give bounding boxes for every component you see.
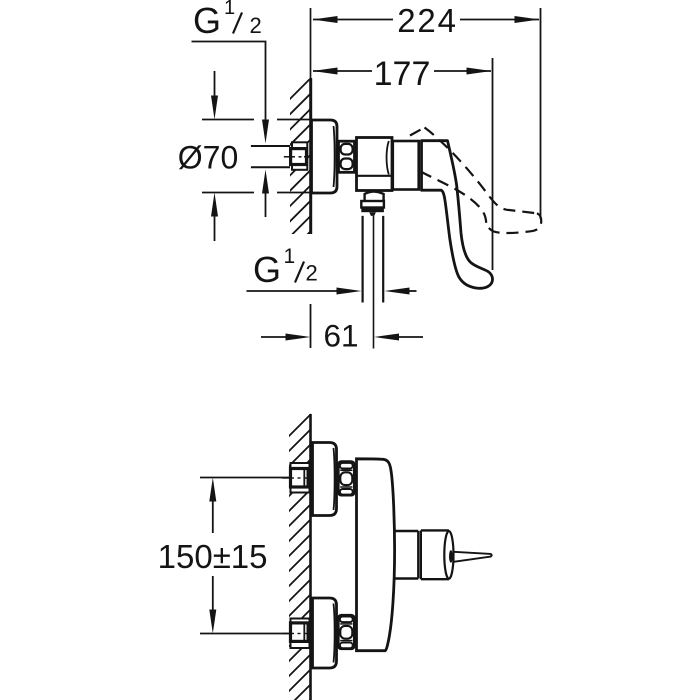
- outlet ring: [361, 201, 384, 208]
- svg-text:177: 177: [374, 55, 431, 93]
- outlet pipe: [363, 216, 384, 303]
- svg-text:2: 2: [306, 261, 318, 286]
- upper union nut (bottom view): [338, 462, 354, 496]
- upper escutcheon flange (bottom view): [313, 443, 337, 516]
- aerator band: [361, 208, 384, 213]
- svg-text:Ø70: Ø70: [178, 140, 238, 176]
- svg-text:224: 224: [397, 2, 457, 39]
- supply washer: [292, 142, 307, 170]
- label G 1/2 (outlet): [253, 245, 318, 290]
- mixer body (bottom view): [357, 459, 395, 651]
- wall hatching (bottom view): [283, 407, 318, 700]
- union nut (top view): [339, 141, 355, 172]
- cartridge cylinder (bottom view): [396, 531, 419, 579]
- supply nipple pipe: [251, 146, 290, 167]
- inlet centerline: [284, 156, 309, 158]
- dimension 150±15: [200, 478, 290, 634]
- lower in-wall nut (bottom view): [291, 623, 309, 643]
- svg-text:150±15: 150±15: [158, 538, 268, 575]
- lower union nut (bottom view): [338, 615, 354, 649]
- outlet centerline: [373, 216, 375, 349]
- wall section line (bottom view): [309, 414, 312, 700]
- lower escutcheon flange (bottom view): [313, 598, 337, 668]
- svg-text:G: G: [253, 249, 281, 290]
- upper washer (bottom view): [291, 463, 310, 493]
- upper in-wall nut (bottom view): [291, 468, 309, 488]
- svg-text:1: 1: [224, 0, 235, 19]
- escutcheon flange (top view): [312, 120, 338, 193]
- svg-text:2: 2: [250, 13, 262, 38]
- lever spike root (bottom view): [449, 550, 453, 563]
- outlet diameter dimension G 1/2: [247, 288, 417, 295]
- upper nut centerline: [282, 477, 310, 479]
- mixer body (top view): [357, 138, 393, 191]
- lever spike (bottom view): [454, 552, 492, 562]
- lower washer (bottom view): [291, 619, 310, 649]
- label G 1/2 (inlet): [192, 0, 266, 120]
- wall extension line (top view): [310, 8, 312, 79]
- wall section line (top view): [309, 78, 312, 234]
- dimension Ø70: [202, 71, 312, 241]
- lever hub (bottom view): [421, 530, 454, 579]
- in-wall socket nut: [291, 149, 307, 165]
- dimension 224: [313, 8, 541, 219]
- aerator tip: [369, 212, 376, 216]
- wall hatching (top view): [284, 71, 318, 258]
- lower nut centerline: [282, 633, 310, 635]
- outlet dome: [365, 192, 384, 201]
- cartridge housing (top view): [393, 141, 419, 190]
- lever handle (solid): [422, 141, 493, 289]
- lever handle alternate position (dashed): [410, 128, 541, 234]
- svg-text:61: 61: [323, 318, 358, 354]
- dimension 61: [261, 304, 423, 348]
- G 1/2 inlet diameter arrows: [262, 120, 269, 218]
- svg-text:1: 1: [284, 245, 296, 268]
- svg-text:G: G: [193, 0, 221, 41]
- dimension 177: [313, 58, 493, 270]
